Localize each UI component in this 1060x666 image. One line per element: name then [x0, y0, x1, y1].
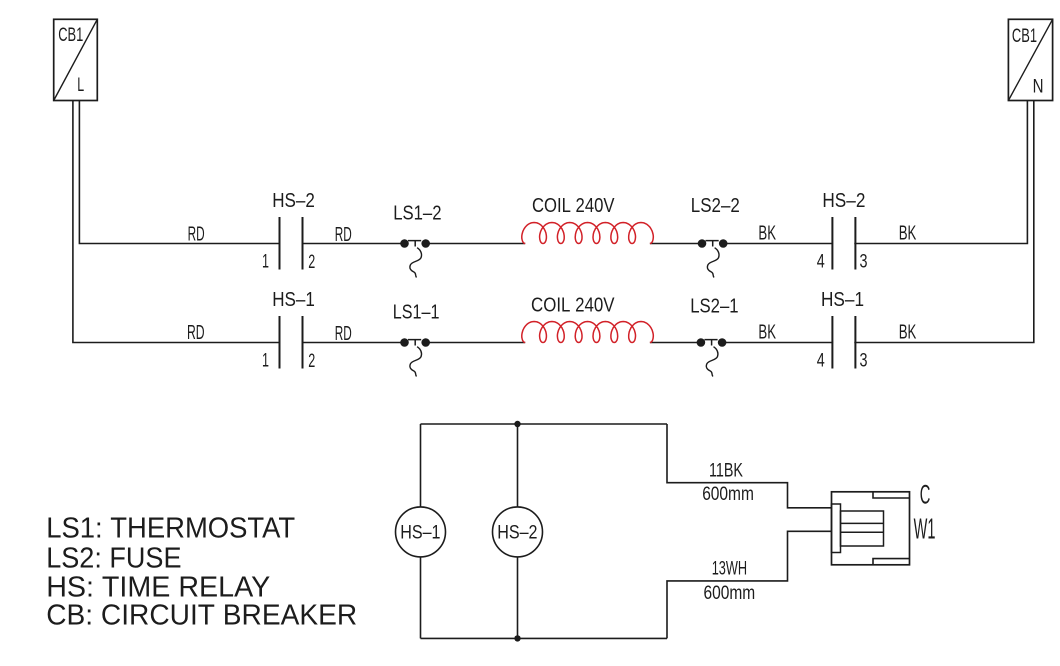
LS1-1 thermal squiggle: [410, 347, 422, 377]
LS1-1 contact dot right: [421, 338, 430, 347]
svg-text:LS2–2: LS2–2: [691, 195, 740, 217]
connector W1 body: [832, 492, 910, 565]
svg-text:HS–2: HS–2: [497, 522, 537, 543]
wire: HS-1 branch vertical bottom: [420, 557, 422, 639]
contact HS-2 pins 1-2: [280, 217, 303, 270]
LS2-2 contact dot right: [719, 239, 728, 248]
svg-text:600mm: 600mm: [704, 583, 756, 604]
svg-text:13WH: 13WH: [712, 559, 747, 580]
svg-text:BK: BK: [899, 322, 917, 344]
connector pin housing: [841, 511, 884, 546]
svg-text:HS–1: HS–1: [272, 289, 315, 311]
svg-text:1: 1: [262, 252, 269, 273]
svg-text:CB1: CB1: [1012, 25, 1037, 47]
svg-text:COIL 240V: COIL 240V: [532, 195, 615, 217]
wire: CB1-N stub to lower rung: [854, 101, 1034, 343]
wire lower rung: LS2-1 to HS-1 right contact: [723, 342, 833, 344]
wire: HS-1 branch vertical top: [420, 424, 422, 507]
svg-text:COIL 240V: COIL 240V: [531, 294, 615, 316]
wire: CB1-L stub to lower rung: [73, 101, 280, 343]
wire: CB1-N stub to upper rung: [854, 101, 1027, 244]
svg-text:1: 1: [262, 351, 269, 372]
coil (upper) COIL 240V: [522, 223, 654, 244]
svg-text:4: 4: [817, 351, 825, 372]
svg-text:HS–2: HS–2: [822, 190, 865, 212]
wire: HS-2 branch vertical bottom: [517, 557, 519, 639]
svg-text:RD: RD: [335, 224, 352, 246]
svg-text:RD: RD: [187, 322, 205, 344]
wire upper rung: LS1-2 to coil: [426, 243, 526, 245]
wire 13WH to connector: [667, 531, 832, 638]
svg-text:11BK: 11BK: [709, 461, 743, 482]
circuit breaker CB1 (N) box: [1008, 19, 1052, 100]
svg-text:CB: CIRCUIT BREAKER: CB: CIRCUIT BREAKER: [46, 600, 357, 632]
wire 11BK to connector: [667, 424, 832, 508]
svg-text:LS1: THERMOSTAT: LS1: THERMOSTAT: [46, 512, 295, 544]
wire: HS-2 branch vertical top: [517, 424, 519, 507]
svg-text:CB1: CB1: [58, 24, 83, 46]
svg-text:LS1–2: LS1–2: [393, 203, 441, 225]
wire lower rung: LS1-1 to coil: [426, 342, 526, 344]
svg-text:BK: BK: [758, 322, 776, 344]
LS1-2 contact dot right: [421, 239, 430, 248]
svg-text:LS2–1: LS2–1: [690, 296, 738, 318]
time relay HS-1 circle: [396, 507, 446, 557]
junction node top: [514, 421, 520, 427]
contact HS-2 right pins 4-3: [832, 217, 855, 270]
wire: top bus of HS loop: [421, 423, 668, 425]
svg-text:2: 2: [308, 252, 315, 273]
LS2-2 contact dot left: [698, 239, 707, 248]
svg-text:LS2: FUSE: LS2: FUSE: [46, 542, 181, 574]
wire upper rung: HS-2 contact to LS1-2: [303, 243, 405, 245]
svg-text:RD: RD: [188, 224, 205, 246]
LS2-2 contact bridge: [706, 241, 719, 247]
svg-text:HS–1: HS–1: [821, 289, 864, 311]
LS2-1 thermal squiggle: [706, 347, 718, 377]
LS2-1 contact dot left: [697, 338, 706, 347]
svg-text:4: 4: [817, 252, 825, 273]
junction node bottom: [514, 635, 520, 641]
connector pin separator 2: [841, 531, 884, 533]
coil (lower) COIL 240V: [522, 322, 654, 343]
contact HS-1 pins 1-2: [280, 316, 303, 369]
connector pin separator 1: [841, 522, 884, 524]
LS2-1 contact bridge: [704, 340, 717, 346]
LS2-1 contact dot right: [718, 338, 727, 347]
svg-text:3: 3: [860, 351, 868, 372]
svg-text:HS–1: HS–1: [400, 522, 440, 543]
wire lower rung: HS-1 contact to LS1-1: [303, 342, 405, 344]
svg-text:BK: BK: [899, 223, 917, 245]
svg-text:BK: BK: [758, 223, 776, 245]
svg-text:RD: RD: [335, 323, 352, 345]
wire upper rung: LS2-2 to HS-2 right contact: [723, 243, 833, 245]
contact HS-1 right pins 4-3: [832, 316, 855, 369]
time relay HS-2 circle: [493, 507, 543, 557]
svg-text:W1: W1: [914, 514, 936, 546]
svg-text:3: 3: [860, 252, 868, 273]
LS1-2 contact dot left: [400, 239, 409, 248]
LS1-2 contact bridge: [408, 241, 421, 247]
svg-text:N: N: [1033, 76, 1044, 98]
svg-text:C: C: [920, 479, 931, 509]
LS2-2 thermal squiggle: [707, 248, 719, 278]
connector mating tab: [832, 504, 841, 553]
svg-text:2: 2: [308, 351, 315, 372]
LS1-1 contact dot left: [400, 338, 409, 347]
svg-text:LS1–1: LS1–1: [393, 301, 440, 323]
svg-text:HS–2: HS–2: [272, 190, 315, 212]
svg-text:600mm: 600mm: [702, 484, 754, 505]
wire: CB1-L stub to upper rung: [79, 101, 279, 244]
svg-text:L: L: [77, 74, 84, 96]
LS1-1 contact bridge: [408, 340, 421, 346]
wire upper rung: coil to LS2-2: [650, 243, 702, 245]
connector top latch notch: [873, 492, 910, 498]
wire: bottom bus of HS loop: [421, 637, 668, 639]
connector bottom latch notch: [873, 559, 910, 565]
LS1-2 thermal squiggle: [410, 248, 422, 278]
circuit breaker CB1 (L) box: [54, 19, 98, 100]
wire lower rung: coil to LS2-1: [650, 342, 702, 344]
